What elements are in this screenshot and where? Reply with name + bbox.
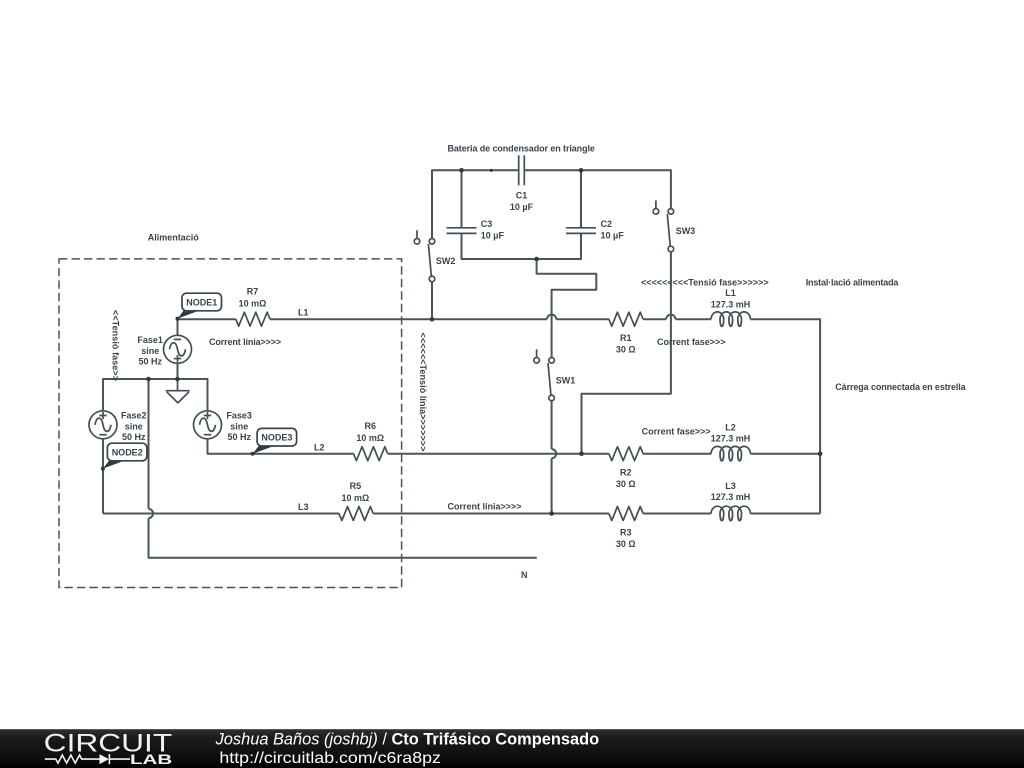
inductor L2 [711, 422, 751, 461]
node neutral bus / N wire [146, 377, 151, 382]
resistor R7 [236, 287, 270, 327]
wire SW1 bottom down to line L3 [551, 401, 553, 514]
node L3 / SW1 [549, 511, 554, 516]
svg-text:SW3: SW3 [676, 226, 696, 236]
wire capacitor-bank top rail [432, 170, 519, 238]
svg-text:10 µF: 10 µF [601, 231, 625, 241]
node L2 / SW3 branch [579, 451, 584, 456]
svg-text:SW2: SW2 [436, 256, 456, 266]
svg-text:L2: L2 [314, 442, 325, 452]
svg-text:R5: R5 [350, 481, 362, 491]
wire Fase3 bottom to node3 / line L2 [208, 439, 253, 454]
svg-text:sine: sine [141, 346, 159, 356]
svg-text:R6: R6 [365, 421, 377, 431]
svg-text:Joshua Baños (joshbj) / Cto Tr: Joshua Baños (joshbj) / Cto Trifásico Co… [215, 731, 600, 749]
svg-text:R3: R3 [620, 527, 632, 537]
wire line L3 across [103, 513, 820, 515]
wire SW3 down then left then down to line L2 [582, 252, 671, 454]
node NODE1 flag [176, 293, 222, 320]
svg-text:R7: R7 [247, 287, 259, 297]
svg-text:Corrent fase>>>: Corrent fase>>> [657, 337, 726, 347]
source Fase2 [89, 411, 147, 442]
node neutral bus / Fase1 [175, 377, 180, 382]
source Fase3 [194, 411, 252, 442]
svg-text:10 mΩ: 10 mΩ [342, 493, 370, 503]
resistor R2 [609, 447, 643, 489]
svg-text:30 Ω: 30 Ω [616, 479, 636, 489]
node top rail joint [490, 169, 493, 172]
wire Fase2 bottom down to line L3 [102, 439, 104, 514]
ground [166, 379, 190, 403]
inductor L1 [711, 288, 751, 326]
svg-text:SW1: SW1 [556, 376, 576, 386]
svg-text:C1: C1 [516, 191, 528, 201]
svg-text:127.3 mH: 127.3 mH [711, 299, 751, 309]
svg-text:Bateria de condensador en tria: Bateria de condensador en triangle [448, 143, 595, 153]
capacitor C3 [447, 219, 505, 241]
switch SW2 [414, 230, 455, 281]
svg-text:L2: L2 [725, 422, 736, 432]
hop of L1 over SW3 wire [666, 315, 675, 320]
node bottom rail / step wire [534, 257, 539, 262]
wire line L1 middle segment with hops [270, 319, 820, 513]
hop of neutral wire over line L3 [149, 509, 154, 518]
svg-text:10 µF: 10 µF [510, 202, 534, 212]
svg-text:L3: L3 [725, 481, 736, 491]
svg-text:<<Tensió fase>>: <<Tensió fase>> [111, 310, 121, 381]
node L2 / right bus [818, 451, 823, 456]
svg-text:Corrent línia>>>>: Corrent línia>>>> [448, 502, 522, 512]
svg-text:sine: sine [125, 421, 143, 431]
svg-text:<<<<<<Tensió línia>>>>>>>: <<<<<<Tensió línia>>>>>>> [418, 333, 428, 452]
svg-text:<<<<<<<<<Tensió fase>>>>>>: <<<<<<<<<Tensió fase>>>>>> [641, 278, 769, 288]
svg-text:30 Ω: 30 Ω [616, 539, 636, 549]
node NODE3 flag [251, 428, 297, 455]
node SW2 / L1 [430, 317, 435, 322]
svg-text:NODE2: NODE2 [112, 447, 143, 457]
source Fase1 [137, 335, 191, 367]
svg-text:Fase3: Fase3 [226, 411, 252, 421]
svg-text:10 µF: 10 µF [481, 231, 505, 241]
svg-text:C3: C3 [481, 219, 493, 229]
svg-text:Corrent línia>>>>: Corrent línia>>>> [209, 337, 281, 347]
wire C3 top lead [461, 170, 463, 228]
resistor R1 [609, 312, 643, 354]
svg-text:L1: L1 [298, 308, 309, 318]
capacitor C1 [510, 155, 534, 212]
resistor R6 [354, 421, 388, 461]
wire neutral bus [103, 379, 208, 411]
svg-text:R1: R1 [620, 333, 632, 343]
svg-text:127.3 mH: 127.3 mH [711, 492, 751, 502]
svg-text:L1: L1 [725, 288, 736, 298]
svg-text:NODE1: NODE1 [186, 297, 217, 307]
svg-text:NODE3: NODE3 [261, 433, 292, 443]
capacitor C2 [566, 219, 624, 241]
svg-text:50 Hz: 50 Hz [122, 432, 146, 442]
wire line L2 across [253, 453, 821, 455]
svg-text:50 Hz: 50 Hz [138, 357, 162, 367]
resistor R3 [609, 507, 643, 549]
wire C2 top lead [580, 170, 582, 228]
wire SW2 bottom to line L1 [431, 282, 433, 320]
logo diode triangle [100, 754, 109, 764]
svg-text:sine: sine [230, 421, 248, 431]
resistor R5 [339, 481, 373, 521]
svg-text:Instal·lació alimentada: Instal·lació alimentada [806, 277, 900, 287]
svg-text:50 Hz: 50 Hz [227, 432, 251, 442]
svg-text:http://circuitlab.com/c6ra8pz: http://circuitlab.com/c6ra8pz [219, 750, 441, 767]
svg-text:N: N [521, 570, 528, 580]
svg-text:Fase2: Fase2 [121, 411, 147, 421]
wire line L1 left segment [178, 318, 236, 320]
svg-text:R2: R2 [620, 468, 632, 478]
wire C3 bottom lead to bottom rail [462, 233, 582, 259]
node top rail / C3 [459, 168, 464, 173]
hop of SW1 feed over line L2 [552, 449, 557, 458]
svg-text:L3: L3 [298, 502, 309, 512]
svg-text:LAB: LAB [130, 751, 172, 767]
dashed enclosure Alimentacio [59, 259, 402, 588]
svg-text:30 Ω: 30 Ω [616, 344, 636, 354]
wire neutral N vertical with hop over line L3 [149, 379, 537, 558]
wire node1 to Fase1 top [177, 319, 179, 335]
wire top rail right of C1 [524, 170, 671, 208]
svg-text:C2: C2 [601, 219, 613, 229]
svg-text:10 mΩ: 10 mΩ [239, 299, 267, 309]
svg-text:Fase1: Fase1 [137, 335, 163, 345]
svg-text:10 mΩ: 10 mΩ [356, 433, 384, 443]
inductor L3 [711, 481, 751, 521]
svg-text:Corrent fase>>>: Corrent fase>>> [642, 427, 711, 437]
wire Fase1 bottom to neutral bus [177, 363, 179, 379]
svg-text:127.3 mH: 127.3 mH [711, 434, 751, 444]
svg-text:Càrrega connectada en estrella: Càrrega connectada en estrella [835, 382, 966, 392]
wire step from bottom rail to SW1 [537, 259, 597, 358]
svg-text:Alimentació: Alimentació [148, 233, 200, 243]
hop of L1 over SW1 feed wire [547, 315, 556, 320]
logo resistor-diode glyph [45, 754, 130, 764]
node top rail / C2 [579, 168, 584, 173]
node NODE2 flag [101, 443, 147, 470]
switch SW3 [653, 200, 695, 251]
switch SW1 [534, 349, 576, 400]
